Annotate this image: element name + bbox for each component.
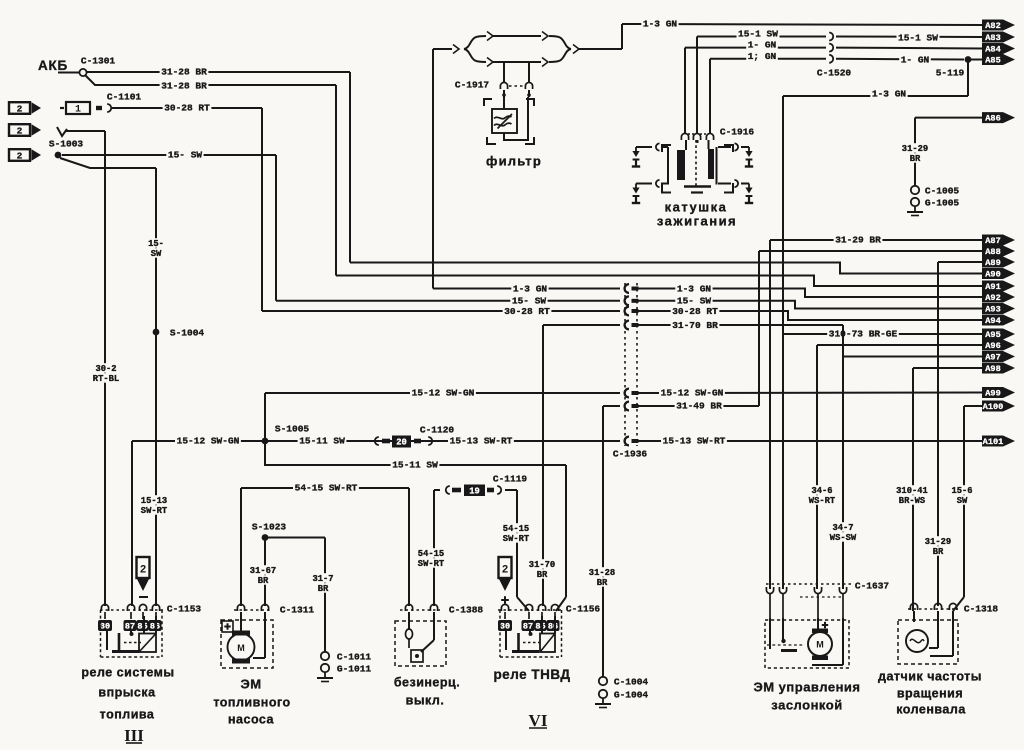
svg-text:C-1156: C-1156 xyxy=(566,603,601,614)
svg-text:31-67: 31-67 xyxy=(250,566,276,576)
svg-text:15-13 SW-RT: 15-13 SW-RT xyxy=(450,435,513,446)
svg-text:85: 85 xyxy=(137,622,147,632)
svg-text:A85: A85 xyxy=(985,56,1000,66)
svg-text:BR: BR xyxy=(258,576,269,586)
svg-text:фильтр: фильтр xyxy=(486,154,542,169)
svg-text:30-2: 30-2 xyxy=(95,364,116,374)
svg-text:34-7: 34-7 xyxy=(832,523,853,533)
svg-text:SW-RT: SW-RT xyxy=(503,534,530,544)
svg-text:15-11 SW: 15-11 SW xyxy=(299,435,345,446)
svg-text:15-12 SW-GN: 15-12 SW-GN xyxy=(661,387,724,398)
svg-text:1: 1 xyxy=(75,105,81,116)
svg-text:31-7: 31-7 xyxy=(312,574,333,584)
svg-text:S-1004: S-1004 xyxy=(170,327,205,338)
svg-text:54-15: 54-15 xyxy=(503,524,529,534)
svg-text:A96: A96 xyxy=(985,341,1000,351)
svg-text:зажигания: зажигания xyxy=(657,214,737,229)
svg-text:SW-RT: SW-RT xyxy=(141,506,168,516)
svg-text:30: 30 xyxy=(100,622,110,632)
svg-text:катушка: катушка xyxy=(665,200,728,215)
svg-text:C-1153: C-1153 xyxy=(167,603,202,614)
svg-text:III: III xyxy=(124,726,144,745)
svg-text:31-70: 31-70 xyxy=(529,560,555,570)
svg-text:топлива: топлива xyxy=(100,708,155,722)
svg-text:C-1936: C-1936 xyxy=(613,448,648,459)
svg-text:1-3 GN: 1-3 GN xyxy=(872,88,907,99)
svg-text:15-13: 15-13 xyxy=(141,496,167,506)
svg-text:1- GN: 1- GN xyxy=(901,54,930,65)
svg-text:1-3 GN: 1-3 GN xyxy=(677,283,712,294)
svg-text:5-119: 5-119 xyxy=(936,67,965,78)
svg-text:15-6: 15-6 xyxy=(951,486,972,496)
svg-text:15-1 SW: 15-1 SW xyxy=(738,28,778,39)
svg-text:31-28: 31-28 xyxy=(589,568,615,578)
svg-text:2: 2 xyxy=(140,565,147,577)
svg-text:вращения: вращения xyxy=(897,687,963,701)
svg-text:A90: A90 xyxy=(985,270,1000,280)
svg-text:C-1005: C-1005 xyxy=(925,185,960,196)
svg-text:A91: A91 xyxy=(985,282,1000,292)
svg-text:реле системы: реле системы xyxy=(81,666,174,680)
svg-text:C-1318: C-1318 xyxy=(964,603,999,614)
svg-text:15-13 SW-RT: 15-13 SW-RT xyxy=(663,435,726,446)
svg-text:S-1003: S-1003 xyxy=(49,138,84,149)
svg-text:34-6: 34-6 xyxy=(811,486,832,496)
svg-text:C-1311: C-1311 xyxy=(280,604,315,615)
svg-text:15- SW: 15- SW xyxy=(168,149,203,160)
svg-text:1-3 GN: 1-3 GN xyxy=(513,283,548,294)
svg-text:A82: A82 xyxy=(985,21,1000,31)
svg-text:A95: A95 xyxy=(985,330,1000,340)
svg-text:SW-RT: SW-RT xyxy=(418,559,445,569)
svg-text:85: 85 xyxy=(535,622,545,632)
svg-text:C-1011: C-1011 xyxy=(337,651,372,662)
svg-text:WS-SW: WS-SW xyxy=(830,533,857,543)
svg-text:A84: A84 xyxy=(985,45,1000,55)
svg-text:WS-RT: WS-RT xyxy=(809,496,836,506)
svg-text:M: M xyxy=(237,643,245,653)
svg-text:коленвала: коленвала xyxy=(896,703,966,717)
svg-text:30-28 RT: 30-28 RT xyxy=(164,102,210,113)
svg-text:SW: SW xyxy=(151,249,162,259)
svg-text:A86: A86 xyxy=(985,114,1000,124)
svg-text:ЭМ: ЭМ xyxy=(240,677,261,692)
svg-text:31-29 BR: 31-29 BR xyxy=(835,234,881,245)
svg-text:1; GN: 1; GN xyxy=(748,51,777,62)
svg-text:30-28 RT: 30-28 RT xyxy=(504,306,550,317)
svg-text:86: 86 xyxy=(548,622,558,632)
svg-text:VI: VI xyxy=(529,711,548,730)
svg-text:31-70 BR: 31-70 BR xyxy=(672,320,718,331)
svg-text:310-41: 310-41 xyxy=(896,486,928,496)
svg-text:A101: A101 xyxy=(983,437,1004,447)
svg-text:безинерц.: безинерц. xyxy=(394,676,460,690)
svg-text:C-1388: C-1388 xyxy=(449,604,484,615)
svg-text:A98: A98 xyxy=(985,364,1000,374)
svg-text:датчик частоты: датчик частоты xyxy=(878,670,982,684)
svg-text:S-1023: S-1023 xyxy=(252,521,287,532)
svg-text:BR: BR xyxy=(597,578,608,588)
svg-text:A97: A97 xyxy=(985,353,1000,363)
svg-text:C-1120: C-1120 xyxy=(420,424,455,435)
svg-text:A100: A100 xyxy=(983,402,1004,412)
svg-text:A99: A99 xyxy=(985,389,1000,399)
svg-text:A87: A87 xyxy=(985,236,1000,246)
svg-text:15-12 SW-GN: 15-12 SW-GN xyxy=(177,435,240,446)
svg-text:BR: BR xyxy=(910,154,921,164)
svg-text:15-12 SW-GN: 15-12 SW-GN xyxy=(412,387,475,398)
svg-text:A92: A92 xyxy=(985,293,1000,303)
svg-text:ЭМ управления: ЭМ управления xyxy=(753,680,860,695)
svg-text:A88: A88 xyxy=(985,247,1000,257)
svg-text:G-1005: G-1005 xyxy=(925,197,960,208)
svg-text:30: 30 xyxy=(500,622,510,632)
svg-text:54-15: 54-15 xyxy=(418,549,444,559)
svg-text:1-3 GN: 1-3 GN xyxy=(643,18,678,29)
svg-text:заслонкой: заслонкой xyxy=(771,698,842,713)
svg-text:C-1119: C-1119 xyxy=(493,473,528,484)
svg-text:31-28 BR: 31-28 BR xyxy=(161,66,207,77)
svg-text:BR: BR xyxy=(318,584,329,594)
svg-text:2: 2 xyxy=(17,125,23,136)
svg-text:31-49 BR: 31-49 BR xyxy=(676,400,722,411)
svg-text:A93: A93 xyxy=(985,305,1000,315)
svg-text:G-1011: G-1011 xyxy=(337,663,372,674)
svg-text:топливного: топливного xyxy=(213,696,290,710)
svg-text:насоса: насоса xyxy=(228,713,275,727)
svg-text:C-1004: C-1004 xyxy=(614,676,649,687)
svg-text:C-1101: C-1101 xyxy=(107,91,142,102)
svg-text:выкл.: выкл. xyxy=(406,694,445,708)
svg-text:30-28 RT: 30-28 RT xyxy=(672,306,718,317)
svg-text:M: M xyxy=(816,640,824,650)
svg-text:2: 2 xyxy=(502,565,509,577)
svg-text:S-1005: S-1005 xyxy=(275,423,310,434)
svg-text:C-1520: C-1520 xyxy=(817,67,852,78)
svg-text:54-15 SW-RT: 54-15 SW-RT xyxy=(295,482,358,493)
svg-text:A83: A83 xyxy=(985,33,1000,43)
svg-text:2: 2 xyxy=(17,103,23,114)
svg-text:C-1917: C-1917 xyxy=(455,79,490,90)
svg-text:31-28 BR: 31-28 BR xyxy=(161,80,207,91)
svg-text:BR-WS: BR-WS xyxy=(899,496,925,506)
svg-text:C-1301: C-1301 xyxy=(81,55,116,66)
svg-text:A89: A89 xyxy=(985,258,1000,268)
svg-text:1- GN: 1- GN xyxy=(748,39,777,50)
svg-text:SW: SW xyxy=(957,496,968,506)
svg-text:15-1 SW: 15-1 SW xyxy=(898,32,938,43)
svg-text:C-1916: C-1916 xyxy=(720,126,755,137)
svg-text:15-: 15- xyxy=(148,239,164,249)
svg-text:19: 19 xyxy=(469,487,480,497)
svg-text:впрыска: впрыска xyxy=(98,686,156,700)
svg-text:RT-BL: RT-BL xyxy=(93,374,119,384)
svg-text:C-1637: C-1637 xyxy=(855,580,890,591)
svg-text:G-1004: G-1004 xyxy=(614,689,649,700)
svg-text:АКБ: АКБ xyxy=(38,58,68,73)
svg-text:15-11 SW: 15-11 SW xyxy=(392,459,438,470)
svg-text:31-29: 31-29 xyxy=(902,144,928,154)
svg-text:BR: BR xyxy=(933,547,944,557)
svg-text:A94: A94 xyxy=(985,316,1000,326)
svg-text:87: 87 xyxy=(523,622,533,632)
svg-text:310-73 BR-GE: 310-73 BR-GE xyxy=(829,328,898,339)
svg-text:87: 87 xyxy=(125,622,135,632)
svg-text:BR: BR xyxy=(537,570,548,580)
svg-text:31-29: 31-29 xyxy=(925,537,951,547)
svg-text:реле ТНВД: реле ТНВД xyxy=(493,667,570,682)
svg-text:20: 20 xyxy=(396,438,407,448)
svg-text:2: 2 xyxy=(17,150,23,161)
